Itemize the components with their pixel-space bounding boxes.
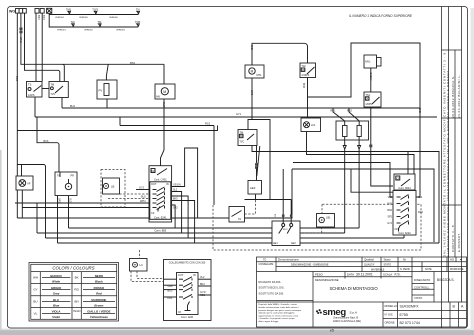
svg-text:BU3: BU3 — [162, 102, 165, 107]
svg-text:e5: e5 — [330, 329, 334, 333]
svg-text:GY2: GY2 — [387, 222, 392, 225]
svg-text:BK2: BK2 — [200, 283, 205, 286]
wire down from connector — [256, 146, 258, 181]
svg-text:VERDE5: VERDE5 — [79, 17, 89, 19]
svg-text:MARRONE: MARRONE — [91, 298, 106, 302]
svg-text:N° DIS.: N° DIS. — [385, 312, 394, 316]
thermal fuse TM1 — [68, 11, 71, 14]
svg-text:BIANCO: BIANCO — [50, 274, 62, 278]
svg-text:BU2: BU2 — [141, 196, 146, 199]
svg-text:CF1: CF1 — [395, 227, 400, 231]
svg-text:BU4: BU4 — [70, 105, 75, 108]
svg-text:SL2: SL2 — [173, 189, 178, 192]
svg-text:QUALITA': QUALITA' — [364, 263, 375, 266]
svg-text:M: M — [251, 69, 254, 73]
svg-text:VERDE6: VERDE6 — [109, 17, 119, 19]
row mid separators — [42, 278, 115, 314]
svg-text:PV: PV — [99, 89, 103, 93]
wire AE3 bottom stub — [255, 195, 257, 201]
svg-text:1/6PS: 1/6PS — [365, 103, 372, 106]
svg-text:TS1: TS1 — [365, 93, 370, 97]
svg-text:TS: TS — [28, 83, 32, 87]
svg-text:MV: MV — [156, 95, 160, 99]
svg-text:23.04.2002 BALADINI L.: 23.04.2002 BALADINI L. — [457, 74, 461, 118]
wire TM DO down — [252, 146, 439, 244]
svg-text:GY3: GY3 — [250, 90, 253, 96]
svg-text:BN: BN — [75, 300, 79, 304]
svg-text:AE2: AE2 — [291, 242, 296, 245]
svg-text:LB: LB — [111, 184, 115, 188]
svg-text:VERDE3: VERDE3 — [116, 29, 126, 31]
timer dashed enclosure — [213, 204, 421, 250]
svg-text:Blue: Blue — [53, 303, 60, 307]
enclosure oven lower — [292, 169, 434, 242]
svg-text:GN2: GN2 — [168, 285, 174, 288]
wire B3 down to timer area — [213, 126, 215, 206]
svg-text:rappresentato ne' venire comun: rappresentato ne' venire comunicato a te… — [258, 314, 298, 317]
wire BN to TS pin2 — [41, 13, 43, 81]
earth rail 1 — [49, 13, 138, 27]
wire merge into AE3 — [257, 146, 260, 176]
svg-text:Proprieta' della SMEG - Guasta: Proprieta' della SMEG - Guastalla - senz… — [258, 303, 297, 306]
svg-text:GY: GY — [33, 288, 37, 292]
svg-text:BLU: BLU — [53, 298, 59, 302]
svg-text:TM: TM — [98, 20, 102, 24]
svg-text:STATO: STATO — [384, 263, 392, 266]
svg-text:CONTROLL.: CONTROLL. — [414, 285, 430, 289]
svg-text:BU6: BU6 — [44, 140, 49, 143]
svg-text:BU1: BU1 — [15, 76, 19, 82]
svg-text:IN: IN — [166, 182, 169, 186]
svg-text:TLF: TLF — [301, 64, 306, 68]
svg-text:ORDINE: ORDINE — [385, 321, 395, 325]
svg-text:PR: PR — [71, 175, 75, 178]
wire BK to TS — [35, 13, 37, 81]
svg-text:MATERIALE: MATERIALE — [371, 268, 385, 271]
thermostat TA — [229, 207, 245, 223]
svg-text:PR1: PR1 — [168, 297, 173, 300]
peso/data/scala row — [315, 272, 454, 300]
svg-text:Brown: Brown — [94, 303, 103, 307]
wires MC top — [283, 169, 291, 224]
svg-text:BU2: BU2 — [168, 289, 173, 292]
svg-text:N. PEZZI: N. PEZZI — [400, 268, 410, 271]
thermal fuse TLF1 — [94, 11, 97, 14]
wire left run y218 — [17, 169, 292, 218]
thermal switch TLF1 oven — [300, 63, 316, 78]
svg-text:SUK92MFX: SUK92MFX — [400, 305, 420, 309]
scan shadow right — [471, 8, 474, 330]
svg-text:Grey: Grey — [53, 291, 60, 295]
wire VF feed — [17, 165, 21, 177]
bus B1 — [62, 107, 420, 109]
svg-text:IL NUMERO 1 INDICA FORNO SUPER: IL NUMERO 1 INDICA FORNO SUPERIORE — [349, 14, 413, 18]
svg-text:BU5: BU5 — [387, 203, 392, 206]
wire labels VERDE rail2 — [57, 29, 126, 31]
svg-text:CONSEGUIM: CONSEGUIM — [259, 263, 274, 266]
bus B3 — [120, 125, 214, 127]
svg-text:BN2: BN2 — [418, 108, 421, 113]
svg-text:RD4: RD4 — [418, 211, 423, 214]
wire RS feeds — [333, 108, 359, 126]
svg-text:TMF: TMF — [135, 20, 141, 24]
thermal fuse TLF — [72, 24, 75, 27]
dashed MC right to LB5 — [300, 232, 322, 234]
svg-text:DO: DO — [302, 68, 306, 72]
svg-text:VISTO: VISTO — [414, 296, 423, 300]
heater PV — [97, 80, 117, 99]
svg-text:NERO: NERO — [95, 274, 104, 278]
ground terminal X — [47, 8, 52, 13]
svg-text:Cont. C401: Cont. C401 — [154, 179, 167, 182]
svg-text:SL2: SL2 — [418, 196, 423, 199]
svg-text:WH: WH — [33, 276, 38, 280]
svg-text:VERDE1: VERDE1 — [57, 29, 67, 31]
wire VF bottom — [21, 190, 23, 218]
wire B2 to M2 — [37, 117, 59, 172]
svg-text:1/16PS: 1/16PS — [301, 74, 309, 77]
wire TLF down to LF1 — [307, 78, 309, 119]
lamp LB5 — [317, 214, 335, 228]
svg-text:SP2: SP2 — [387, 216, 392, 219]
RS pin arrows — [343, 137, 360, 150]
L4 pilot lamp dashed — [130, 259, 148, 272]
wire N down to bus B0 — [21, 13, 164, 64]
svg-text:TA: TA — [238, 217, 241, 221]
wire dashed AE3 to TA — [255, 200, 257, 214]
svg-text:BK2GY: BK2GY — [369, 73, 372, 81]
svg-text:L4: L4 — [140, 263, 144, 267]
svg-text:DENOMINAZIONE - DIMENSIONE: DENOMINAZIONE - DIMENSIONE — [291, 263, 329, 266]
svg-text:ROSSO: ROSSO — [94, 286, 105, 290]
svg-text:COLORI / COLOURS: COLORI / COLOURS — [52, 266, 94, 271]
wires M2 down — [57, 196, 59, 244]
svg-text:Black: Black — [95, 279, 103, 283]
svg-text:VF: VF — [27, 181, 31, 185]
scan shadow left — [0, 150, 2, 330]
thermal fuse TM — [99, 24, 102, 27]
svg-text:CF: CF — [396, 176, 400, 180]
svg-text:Red: Red — [96, 291, 102, 295]
svg-text:B2 073 1744: B2 073 1744 — [400, 321, 420, 325]
inline connector on N wire — [20, 28, 23, 31]
left label cells — [259, 280, 285, 296]
svg-text:BK7: BK7 — [37, 15, 41, 20]
svg-text:TM: TM — [50, 83, 54, 87]
wire L1 down — [16, 13, 18, 218]
svg-text:NOTE: NOTE — [425, 268, 432, 271]
smeg logo — [316, 307, 361, 323]
svg-text:DENOMINAZIONE: DENOMINAZIONE — [315, 278, 339, 282]
pin labels left of 6242 — [387, 196, 392, 225]
svg-text:S.p.A: S.p.A — [350, 311, 357, 315]
horizontal rows — [257, 261, 467, 263]
svg-text:VERDE2: VERDE2 — [84, 29, 94, 31]
svg-text:LF1: LF1 — [311, 123, 316, 127]
svg-text:MT1: MT1 — [257, 74, 263, 77]
svg-text:GRIGIO: GRIGIO — [51, 286, 62, 290]
svg-text:BK5: BK5 — [173, 197, 178, 200]
svg-text:TM1: TM1 — [66, 8, 72, 12]
wire TS to TM — [42, 88, 49, 90]
thermal fuse TN — [137, 11, 140, 14]
svg-text:VL2: VL2 — [200, 276, 205, 279]
svg-text:MODIFICHE: MODIFICHE — [450, 268, 464, 271]
grill element RS — [331, 110, 369, 141]
row1 texts — [278, 258, 462, 262]
svg-text:RICAVATO DA DIS.: RICAVATO DA DIS. — [259, 280, 282, 284]
svg-text:AE3: AE3 — [250, 186, 256, 190]
fine print — [258, 303, 302, 323]
switch CF1 block — [394, 174, 415, 190]
svg-text:SP2: SP2 — [58, 198, 61, 203]
svg-text:TVC: TVC — [50, 93, 55, 96]
svg-text:LB1: LB1 — [326, 216, 331, 220]
svg-text:42016 GUASTALLA (RE): 42016 GUASTALLA (RE) — [333, 320, 361, 323]
inline connector — [255, 163, 258, 166]
svg-text:Qualita': Qualita' — [364, 258, 375, 262]
bus B2 — [35, 116, 437, 118]
connector block 6242 — [393, 191, 416, 236]
wire MT1 down — [251, 78, 253, 117]
svg-text:M: M — [163, 90, 166, 94]
svg-text:VL2: VL2 — [388, 196, 393, 199]
svg-text:TVC: TVC — [239, 141, 244, 144]
motor MV — [155, 84, 175, 99]
svg-text:RD2: RD2 — [200, 294, 206, 297]
svg-text:BU: BU — [33, 300, 37, 304]
svg-text:Yellow/Green: Yellow/Green — [90, 315, 108, 319]
svg-text:MODELLO: MODELLO — [385, 304, 398, 308]
svg-text:◄: ◄ — [459, 258, 462, 262]
svg-text:OUT: OUT — [151, 182, 157, 186]
svg-text:20.09.2002 B0022DA S.: 20.09.2002 B0022DA S. — [451, 75, 455, 118]
svg-text:1/4PS: 1/4PS — [28, 94, 35, 97]
modello cells — [385, 304, 398, 324]
svg-text:VIOLA: VIOLA — [52, 310, 62, 314]
svg-text:YE/GN: YE/GN — [73, 310, 81, 313]
connector C401 — [149, 166, 172, 233]
svg-text:WH4: WH4 — [140, 200, 146, 203]
svg-text:utilizzato per la costruzione: utilizzato per la costruzione dell'ogget… — [258, 312, 295, 315]
lamp LB dashed — [101, 170, 125, 208]
wire PV bottom — [106, 99, 108, 108]
svg-text:WO: WO — [9, 9, 15, 13]
wire 6242 bottom — [403, 235, 405, 238]
wire labels VERDE rail1 — [55, 17, 119, 19]
svg-text:YE/GN: YE/GN — [173, 184, 181, 187]
wire to TM upper pin — [25, 13, 60, 81]
thermal fuse TMF — [137, 24, 140, 27]
fan MV1 — [364, 55, 381, 68]
svg-text:RG2: RG2 — [205, 123, 211, 126]
svg-text:BN3: BN3 — [302, 83, 305, 88]
svg-text:Stato: Stato — [384, 258, 391, 262]
pins and switches — [153, 187, 165, 212]
svg-text:SL2: SL2 — [69, 198, 72, 203]
svg-text:Nr: Nr — [403, 258, 406, 262]
scan shadow bottom — [0, 330, 474, 335]
wire branch y97 to right loop — [308, 43, 421, 197]
wire B3 left riser — [119, 117, 121, 126]
svg-text:DO: DO — [366, 97, 370, 101]
wire MT1 top loop — [252, 43, 308, 65]
wire CF1 top — [407, 152, 409, 175]
svg-text:MV1: MV1 — [365, 60, 371, 64]
wire y164.5 drop — [22, 165, 46, 239]
switch TM TVC — [49, 82, 68, 98]
svg-text:GY2: GY2 — [139, 187, 145, 190]
wire branch to pin row — [351, 169, 393, 192]
svg-text:diritti a rigore di legge.: diritti a rigore di legge. — [258, 320, 279, 323]
svg-text:DO: DO — [240, 134, 244, 138]
pin wires left of C401 — [136, 189, 149, 191]
svg-text:GY1: GY1 — [236, 113, 242, 116]
wire MV1 down — [370, 68, 372, 92]
svg-text:SCHEMA DI MONTAGGIO: SCHEMA DI MONTAGGIO — [329, 286, 378, 291]
svg-text:SOSTITUISCE IL DIS.: SOSTITUISCE IL DIS. — [259, 286, 285, 290]
svg-text:- Guastalla - la proprieta' ri: - Guastalla - la proprieta' riserva i pr… — [258, 317, 295, 320]
svg-text:GIALLO / VERDE: GIALLO / VERDE — [87, 310, 110, 314]
svg-text:formale autorizzazione scritta: formale autorizzazione scritta della ste… — [258, 306, 299, 309]
svg-text:BK: BK — [75, 276, 79, 280]
switch TM DO TVC — [238, 130, 257, 146]
svg-text:DATA: DATA — [347, 272, 354, 276]
svg-text:White: White — [52, 279, 60, 283]
lamp LF1 — [301, 118, 321, 132]
motor MT1 — [245, 65, 264, 78]
wire h y199.5 — [245, 199, 292, 201]
svg-text:TLF1: TLF1 — [92, 8, 99, 12]
svg-text:CF: CF — [178, 310, 182, 314]
wire bus y130.5 — [17, 126, 217, 131]
svg-text:TN: TN — [136, 8, 140, 12]
svg-text:TM: TM — [239, 130, 243, 134]
svg-text:BN2: BN2 — [250, 45, 253, 50]
svg-text:VL: VL — [34, 312, 38, 316]
wire TS1 down — [371, 107, 393, 186]
relay AE3 — [248, 181, 262, 195]
svg-text:IN: IN — [193, 273, 196, 277]
wire TM to bus B1 — [61, 98, 63, 109]
thermal switch TS1 — [364, 92, 381, 107]
svg-text:ELIMINATO CAVO ROSSO2, INSERIT: ELIMINATO CAVO ROSSO2, INSERITO ROSSO7 D… — [446, 69, 450, 257]
svg-text:presente disegno non potra' es: presente disegno non potra' essere comun… — [258, 309, 302, 312]
svg-text:Gramsciadone Navi, B: Gramsciadone Navi, B — [333, 316, 358, 319]
svg-text:AS: AS — [450, 258, 454, 262]
svg-text:SCALA: SCALA — [383, 272, 392, 276]
svg-text:Cont. E241: Cont. E241 — [154, 216, 167, 219]
svg-text:E ROSSO7.: E ROSSO7. — [457, 232, 461, 252]
pin wires right of C401 — [172, 148, 198, 218]
branch B0 into TM — [63, 64, 65, 81]
svg-text:TLF: TLF — [71, 20, 76, 24]
svg-text:Denominazione: Denominazione — [278, 258, 299, 262]
fan VF — [16, 176, 33, 190]
wire B2 jog to TM DO — [248, 117, 270, 200]
pins & switches — [164, 277, 212, 311]
thermostat TS — [27, 82, 43, 98]
wire PV top — [106, 64, 108, 80]
svg-text:Com. E00: Com. E00 — [181, 315, 194, 319]
wire RS pins to loops — [344, 148, 346, 233]
svg-text:SOSTITUITO DA DIS.: SOSTITUITO DA DIS. — [259, 292, 285, 296]
svg-text:F.S.: F.S. — [395, 273, 401, 277]
terminal block supply — [16, 8, 52, 13]
dashed link TA to AE3 — [245, 213, 255, 215]
vertical columns — [275, 257, 277, 272]
wire MV top — [163, 64, 165, 84]
svg-text:Cont. 6242: Cont. 6242 — [398, 232, 411, 235]
svg-text:30.11.2001: 30.11.2001 — [356, 273, 373, 277]
svg-text:TO: TO — [263, 259, 266, 262]
bottom nested loops — [69, 227, 360, 229]
svg-text:MC1: MC1 — [283, 229, 288, 231]
lamp unit M2 — [55, 172, 77, 196]
switch unit MC — [272, 221, 300, 246]
svg-text:COLLEGAMENTO CON CON 300: COLLEGAMENTO CON CON 300 — [169, 261, 206, 264]
svg-text:CF: CF — [151, 211, 155, 215]
svg-text:AE1: AE1 — [273, 242, 278, 245]
svg-text:BN1: BN1 — [130, 61, 136, 65]
svg-text:OUT: OUT — [178, 273, 184, 277]
svg-text:Conn. B65: Conn. B65 — [154, 230, 166, 233]
svg-text:E755: E755 — [400, 313, 408, 317]
svg-text:BN2: BN2 — [387, 209, 392, 212]
wire TS down to bus B2 — [34, 97, 36, 117]
svg-text:SP2: SP2 — [173, 206, 178, 209]
svg-text:WH2: WH2 — [19, 37, 23, 43]
svg-text:VERDE4: VERDE4 — [55, 17, 65, 19]
svg-text:CONTATTI 3 - 8: CONTATTI 3 - 8 — [451, 225, 455, 252]
wire MV down to C401 — [161, 99, 165, 166]
svg-text:Cont. 0844: Cont. 0844 — [398, 187, 411, 190]
svg-text:PESO: PESO — [315, 272, 324, 276]
wire LF1 down — [307, 132, 415, 191]
svg-text:BN7: BN7 — [42, 15, 46, 21]
svg-text:B0022DA S.: B0022DA S. — [437, 278, 454, 282]
svg-text:Violet: Violet — [52, 315, 61, 319]
svg-text:DISEGNATO: DISEGNATO — [414, 278, 431, 282]
